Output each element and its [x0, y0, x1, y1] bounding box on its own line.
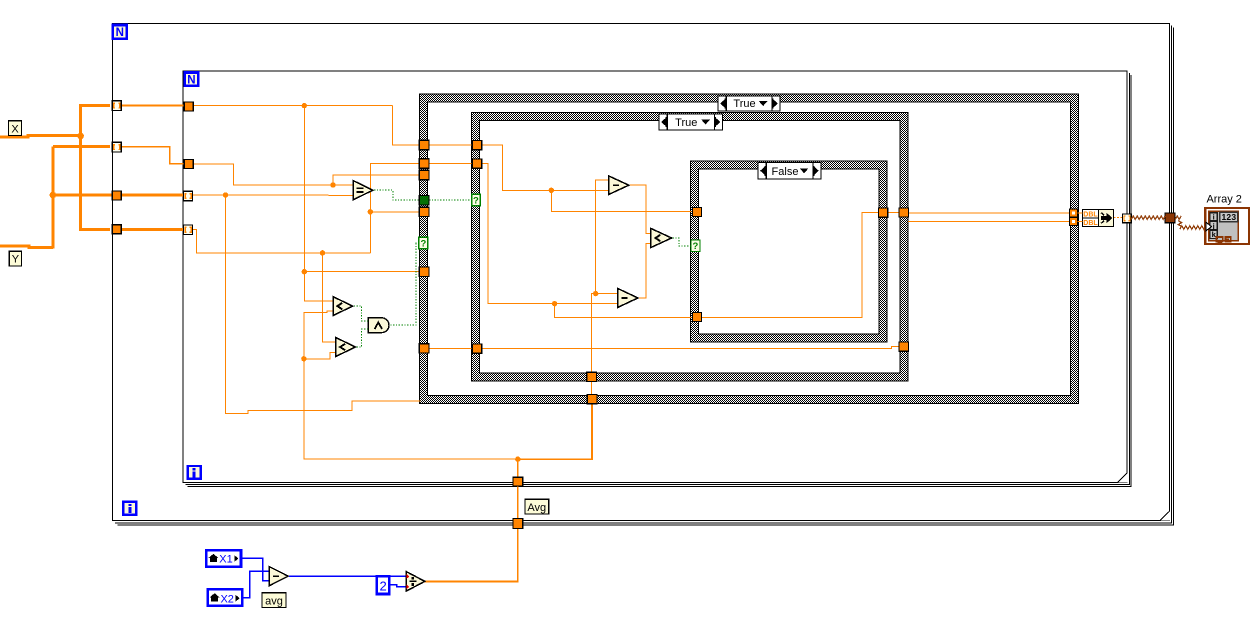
tunnel inner loop left U4 indexing — [184, 225, 193, 235]
svg-text:Avg: Avg — [527, 502, 546, 514]
subtract node U-sub1 — [609, 176, 629, 194]
coercion dot divide bottom — [407, 584, 410, 589]
AND gate U-and — [368, 318, 389, 333]
tunnel outer case left CT5 — [419, 207, 429, 216]
tunnel middle case left M2 — [472, 159, 482, 168]
svg-text:True: True — [733, 98, 755, 110]
junction Y — [50, 192, 57, 199]
comparator Equal U-eq — [353, 181, 372, 200]
wire X2 to subtract — [243, 571, 270, 597]
wire branch to case tunnel CT3 — [333, 175, 420, 185]
selector terminal outer case — [419, 237, 428, 249]
svg-text:DBL: DBL — [1083, 212, 1098, 219]
svg-text:i: i — [1213, 213, 1215, 222]
wire Y vertical — [51, 147, 54, 249]
junction equals top — [330, 182, 335, 187]
tunnel outer loop bottom — [513, 519, 523, 529]
wire row146 jog to inner tunnel — [114, 147, 186, 164]
comparator LessThan U-lt1 — [333, 297, 353, 316]
tunnel inner loop right indexing — [1123, 214, 1132, 223]
svg-text:X2: X2 — [220, 593, 233, 605]
wire U2 to equals top — [194, 164, 354, 185]
wire row105 to case tunnel CT1 — [392, 106, 420, 145]
local variable X2 — [208, 589, 243, 606]
wire row195 branch down to case corner — [226, 195, 421, 414]
indicator Array 2 — [1205, 208, 1249, 244]
wire False right tunnel to middle right tunnel — [888, 212, 900, 214]
wire tunnel to build array bottom — [1078, 221, 1083, 223]
junction x370 — [368, 209, 373, 214]
wire x322 to less2 top — [323, 253, 336, 342]
svg-text:avg: avg — [265, 595, 283, 607]
tunnel middle case left M6 — [472, 344, 482, 353]
svg-text:N: N — [187, 75, 195, 87]
wire X branch down to outer loop tunnel — [81, 135, 110, 229]
wire X feed — [0, 136, 82, 138]
wire less2 output boolean — [357, 329, 368, 347]
wire branch x304 down to less1 — [304, 106, 333, 301]
svg-text:N: N — [116, 27, 124, 39]
divide node — [406, 572, 425, 592]
wire row221 to outer right tunnel — [908, 221, 1070, 223]
wire avg up branch — [304, 311, 518, 459]
junction X — [77, 133, 84, 140]
wire subtract to divide — [289, 575, 406, 577]
tunnel outer case right CR1 — [1070, 209, 1078, 217]
junction x551 — [549, 188, 554, 193]
subtract node U-sub2 — [618, 288, 638, 307]
wire row105 outer to inner loop — [114, 105, 188, 107]
inner For loop border — [183, 71, 1131, 486]
tunnel outer case left CT1 — [419, 140, 429, 149]
wire row195 to equals bottom — [192, 194, 354, 196]
inner For loop iteration terminal i — [188, 466, 201, 479]
outer For loop count terminal N — [113, 25, 127, 39]
tunnel inner loop left U3 indexing — [184, 191, 193, 201]
wire U4 to x370 — [189, 229, 370, 253]
tunnel inner loop left U2 — [184, 159, 193, 168]
tunnel outer loop left T1 indexing — [112, 101, 121, 111]
junction avg — [515, 457, 520, 462]
middle case structure — [472, 113, 908, 382]
wire False case bottom tunnel up to right tunnel — [702, 213, 880, 318]
wire 2 to divide — [391, 585, 406, 587]
wire CT2 into middle case — [429, 162, 473, 164]
label X — [9, 121, 22, 136]
svg-text:j: j — [1212, 221, 1215, 230]
tunnel outer case left CT2 — [419, 159, 429, 168]
wire row229 between loops — [113, 228, 187, 231]
svg-text:False: False — [772, 166, 799, 178]
outer case selector label True — [718, 96, 780, 111]
wire build array to inner loop tunnel — [1114, 217, 1123, 219]
comparator LessThan U-lt3 — [651, 228, 672, 247]
wire CT1 into middle case — [429, 144, 473, 146]
innermost case structure — [691, 161, 888, 342]
wire Y feed — [0, 246, 53, 248]
tunnel outer loop left T2 indexing — [112, 142, 121, 152]
wire avg vertical through cases — [591, 180, 609, 403]
svg-text:X1: X1 — [219, 554, 232, 566]
wire less1 output boolean — [354, 306, 368, 321]
local variable X1 — [206, 550, 241, 567]
inner For loop count terminal N — [185, 73, 199, 87]
numeric constant 2 — [377, 576, 390, 594]
outer For loop border — [113, 24, 1174, 525]
outer case structure — [420, 94, 1079, 404]
wire mid tunnel2 down to subtract2 bottom — [481, 164, 618, 304]
tunnel outer case right CR2 — [1070, 217, 1078, 225]
svg-text:True: True — [675, 117, 697, 129]
junction row195 — [223, 192, 228, 197]
wire avg right to case bottom tunnel — [518, 400, 592, 459]
svg-text:Array 2: Array 2 — [1206, 194, 1241, 206]
wire row105 inner — [190, 105, 392, 107]
wire branch to case tunnel CT6 — [304, 271, 420, 273]
svg-text:Y: Y — [12, 254, 20, 266]
tunnel inner loop left U1 — [184, 102, 193, 111]
tunnel False case left F1 — [692, 207, 701, 216]
tunnel middle case left M1 — [472, 141, 482, 150]
tunnel outer case left CT6 — [419, 267, 429, 276]
tunnel outer case left CL7 — [419, 344, 429, 353]
build array node — [1083, 210, 1114, 228]
tunnel outer case left CT4 boolean — [419, 195, 429, 205]
junction x304 row271 — [302, 269, 307, 274]
tunnel False case right F3 — [878, 208, 887, 217]
label Y — [9, 251, 21, 266]
wire mid tunnel1 to subtract1 bottom — [481, 145, 610, 190]
wire CL7 into middle case row348 — [429, 347, 473, 349]
junction row105 — [302, 103, 307, 108]
wire middle right tunnel to outer right tunnel — [909, 212, 1071, 214]
wire less3 output to False selector — [673, 238, 691, 246]
wire Y to tunnel row195 — [53, 194, 186, 197]
wire x370 up to case tunnel CT2 — [370, 163, 420, 253]
wire X branch up to outer loop tunnel — [81, 105, 110, 137]
selector terminal False case — [691, 240, 700, 252]
wire 2D array outer loop tunnel to indicator — [1175, 216, 1181, 219]
wire branch to case tunnel CT5 — [370, 211, 420, 213]
tunnel outer case bottom CB1 — [587, 394, 597, 403]
subtract node avg-sub — [269, 567, 288, 586]
tunnel inner loop bottom — [513, 477, 523, 486]
wire row348 across middle case — [481, 347, 900, 349]
wire Y to tunnel row146 — [53, 145, 110, 148]
middle case selector label True — [659, 114, 723, 130]
wire equals output boolean — [374, 190, 420, 200]
wire boolean CT4 to middle case selector — [429, 199, 471, 201]
svg-text:?: ? — [473, 196, 479, 207]
wire and output to outer case selector — [390, 243, 420, 325]
wire branch to False case left tunnel — [551, 190, 691, 211]
wire X1 to subtract — [242, 558, 270, 581]
junction row253 — [320, 250, 325, 255]
coercion dot divide top — [407, 574, 410, 579]
tunnel middle case bottom M5 — [587, 372, 597, 381]
innermost case selector label False — [758, 163, 821, 180]
wire avg branch to subtract2 top — [596, 293, 618, 295]
tunnel outer loop left T3 — [112, 191, 121, 200]
label Avg — [525, 499, 549, 514]
wire subtract2 output — [639, 244, 651, 298]
comparator LessThan U-lt2 — [336, 338, 356, 357]
tunnel middle case right M4 — [899, 342, 909, 351]
svg-text:DBL: DBL — [1083, 220, 1098, 227]
svg-text:X: X — [11, 123, 19, 135]
svg-text:?: ? — [692, 241, 698, 252]
junction avg x304 — [301, 356, 306, 361]
label avg — [262, 593, 286, 608]
outer For loop iteration terminal i — [123, 502, 136, 515]
wire tunnel to build array top — [1078, 212, 1083, 214]
wire subtract1 output — [630, 185, 651, 233]
wire avg branch to less2 bottom — [304, 352, 336, 358]
wire avg down through loop tunnels — [425, 459, 518, 581]
junction avg in case — [593, 291, 598, 296]
tunnel outer loop left T4 — [112, 225, 121, 234]
tunnel outer case left CT3 — [419, 170, 429, 179]
wire branch to False case bottom-left tunnel — [555, 304, 692, 318]
selector terminal middle case — [472, 194, 480, 206]
tunnel middle case right M3 — [899, 208, 909, 217]
wire 2D array inner loop to outer loop tunnel — [1131, 216, 1165, 219]
svg-text:?: ? — [420, 239, 426, 250]
tunnel outer loop right 2D — [1165, 213, 1175, 223]
junction x554 — [552, 301, 557, 306]
tunnel False case left F2 — [692, 312, 701, 321]
svg-text:123: 123 — [1222, 212, 1237, 222]
svg-text:2: 2 — [379, 579, 386, 594]
